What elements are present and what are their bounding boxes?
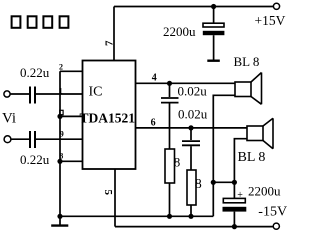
speaker SP1 cone	[251, 73, 262, 105]
svg-text:0.02u: 0.02u	[178, 107, 208, 122]
svg-text:6: 6	[151, 117, 156, 128]
wire pin 7 vertical	[113, 7, 115, 61]
capacitor C2 0.22u plates	[29, 131, 31, 148]
node +15V cap	[211, 4, 216, 9]
wire -15V bottom rail	[115, 226, 273, 228]
svg-text:9: 9	[60, 130, 64, 139]
capacitor C1 0.22u plates	[29, 87, 31, 104]
svg-text:0.02u: 0.02u	[178, 84, 208, 99]
svg-text:5: 5	[102, 190, 114, 196]
ground link wire	[213, 181, 234, 183]
node out2 zobel	[188, 125, 193, 130]
node R1 gnd	[167, 214, 172, 219]
wire C1 to pin 1	[35, 93, 83, 95]
svg-text:7: 7	[104, 40, 116, 46]
svg-text:Vi: Vi	[2, 111, 16, 127]
ground symbol top	[207, 60, 220, 62]
capacitor C4 0.02u lead	[169, 83, 171, 97]
node -15V cap	[232, 224, 237, 229]
svg-text:8: 8	[59, 151, 63, 160]
ground symbol left	[59, 216, 61, 224]
svg-text:2200u: 2200u	[248, 183, 281, 198]
capacitor C3 2200u (top) lead	[213, 7, 215, 24]
wire pin 5 vertical	[114, 169, 116, 227]
capacitor C5 plates	[182, 140, 200, 142]
wire pin 4 output rail	[136, 82, 236, 84]
svg-text:4: 4	[152, 73, 157, 84]
node gnd link right	[232, 180, 237, 185]
wire R1 to ground rail	[169, 183, 171, 216]
input terminal J2 (lower)	[4, 136, 11, 143]
node pin3/gnd	[57, 114, 62, 119]
wire +15V top rail	[114, 6, 273, 8]
node gnd rail left	[57, 214, 62, 219]
wire pin 8	[60, 160, 83, 162]
wire pin 6 output rail	[136, 127, 248, 129]
wire J1 to C1	[10, 93, 29, 95]
svg-text:0.22u: 0.22u	[20, 65, 50, 80]
capacitor C6 lower lead	[233, 212, 235, 227]
wire R2 to ground rail	[190, 205, 192, 216]
wire C5 to R2	[190, 146, 192, 170]
wire pin 3	[60, 115, 83, 117]
capacitor C4 plates	[161, 97, 179, 99]
svg-text:0.22u: 0.22u	[20, 152, 50, 167]
node out1 zobel	[167, 81, 172, 86]
resistor R2 body	[187, 170, 196, 205]
svg-text:IC: IC	[89, 85, 103, 100]
label pin 3 placeholder	[60, 110, 63, 114]
svg-text:8: 8	[195, 177, 202, 192]
IC U1 TDA1521 body	[83, 61, 136, 170]
svg-text:2200u: 2200u	[163, 24, 196, 39]
wire C4 to R1	[169, 104, 171, 150]
resistor R1 body	[165, 149, 175, 183]
wire J2 to C2	[11, 138, 29, 140]
svg-text:+15V: +15V	[255, 13, 286, 28]
wire ground bus vertical left	[59, 71, 61, 216]
capacitor C6 2200u (bottom) plates	[223, 198, 245, 202]
node gnd link left	[211, 180, 216, 185]
speaker SP1 frame	[235, 82, 251, 97]
speaker SP2 frame	[247, 126, 263, 141]
wire pin 2	[60, 70, 83, 72]
svg-text:1: 1	[59, 86, 63, 95]
wire ground rail bottom	[60, 215, 213, 217]
speaker SP1 return wire	[213, 95, 235, 216]
-15V terminal	[273, 223, 279, 229]
node R2 gnd	[188, 214, 193, 219]
title placeholder squares	[12, 16, 69, 28]
svg-text:TDA1521: TDA1521	[80, 111, 136, 126]
capacitor C3 plates	[203, 23, 224, 27]
speaker SP2 return wire	[234, 139, 247, 199]
svg-text:BL 8: BL 8	[234, 54, 260, 69]
speaker SP2 cone	[263, 118, 273, 149]
node pin8/gnd	[57, 159, 62, 164]
svg-text:2: 2	[59, 62, 63, 71]
svg-text:-15V: -15V	[258, 205, 287, 220]
svg-text:+: +	[237, 190, 243, 201]
svg-text:8: 8	[174, 155, 181, 170]
capacitor C3 lower lead	[213, 35, 215, 60]
wire C2 to pin 9	[35, 138, 83, 140]
svg-text:BL 8: BL 8	[238, 150, 266, 165]
input terminal J1 (upper)	[4, 91, 10, 97]
+15V terminal	[273, 3, 279, 9]
capacitor C5 0.02u lead	[190, 128, 192, 140]
